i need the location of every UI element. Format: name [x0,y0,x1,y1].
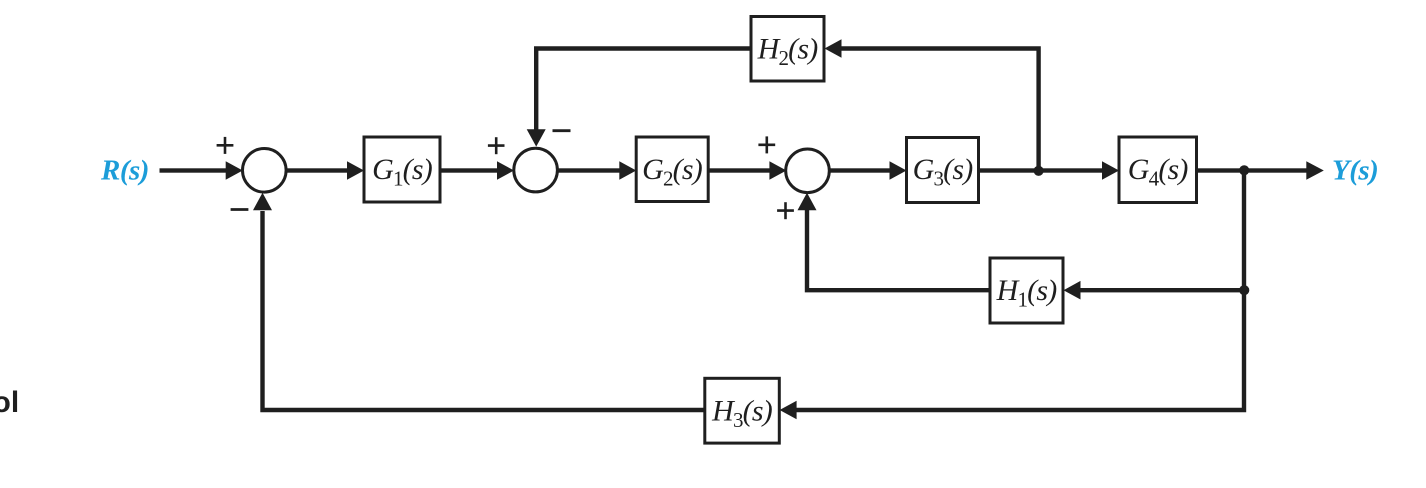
wire S2 to block G2 with arrow [557,161,636,180]
svg-text:Y(s): Y(s) [1332,155,1378,187]
wire S3 to block G3 with arrow [829,161,907,180]
wire node B down to H1 with arrow into H1 [1064,281,1245,300]
wire input R(s) to summer S1 with arrow [160,161,243,180]
wire node A up and left to H2 with arrow into H2 [825,39,1039,171]
minus sign at summer S1 feedback input [231,208,249,211]
wire H2 output left and down into summer S2 with arrow [527,49,751,147]
minus sign at summer S2 top input [553,129,571,132]
block G3 [907,138,979,203]
wire G1 to summer S2 with arrow [440,161,514,180]
svg-text:G1(s): G1(s) [372,153,433,191]
wire H1 output left and up into summer S3 with arrow [798,193,991,291]
plus sign at summer S3 bottom input [777,202,794,219]
svg-text:G3(s): G3(s) [913,153,974,191]
plus sign at summer S3 input [758,136,775,153]
block H3 [705,378,780,443]
junction dot node B after G4 [1239,165,1249,175]
wire G2 to summer S3 with arrow [708,161,786,180]
svg-text:H3(s): H3(s) [711,395,773,433]
svg-text:R(s): R(s) [100,155,149,187]
wire H3 output left and up into summer S1 with arrow [253,193,705,410]
summing junction S2 [514,148,558,192]
svg-text:ol: ol [0,386,19,419]
wire S1 to block G1 with arrow [286,161,364,180]
block G4 [1119,137,1197,203]
summing junction S3 [786,149,830,193]
junction dot node C on feedback line [1239,285,1249,295]
wire G3 to block G4 with arrow [979,161,1120,180]
plus sign at summer S2 input [488,137,505,154]
wire G4 to output Y(s) with arrow [1197,161,1324,180]
block H1 [990,258,1063,323]
svg-text:G4(s): G4(s) [1128,153,1189,191]
plus sign at summer S1 input [217,137,234,154]
svg-text:G2(s): G2(s) [642,153,703,191]
svg-text:H1(s): H1(s) [996,274,1058,312]
svg-text:H2(s): H2(s) [757,33,819,71]
summing junction S1 [242,149,286,193]
block H2 [751,17,824,82]
wire node B down right side to H3 with arrow into H3 [780,171,1244,420]
block G1 [364,137,440,202]
block G2 [636,137,708,202]
junction dot node A after G3 [1034,166,1044,176]
